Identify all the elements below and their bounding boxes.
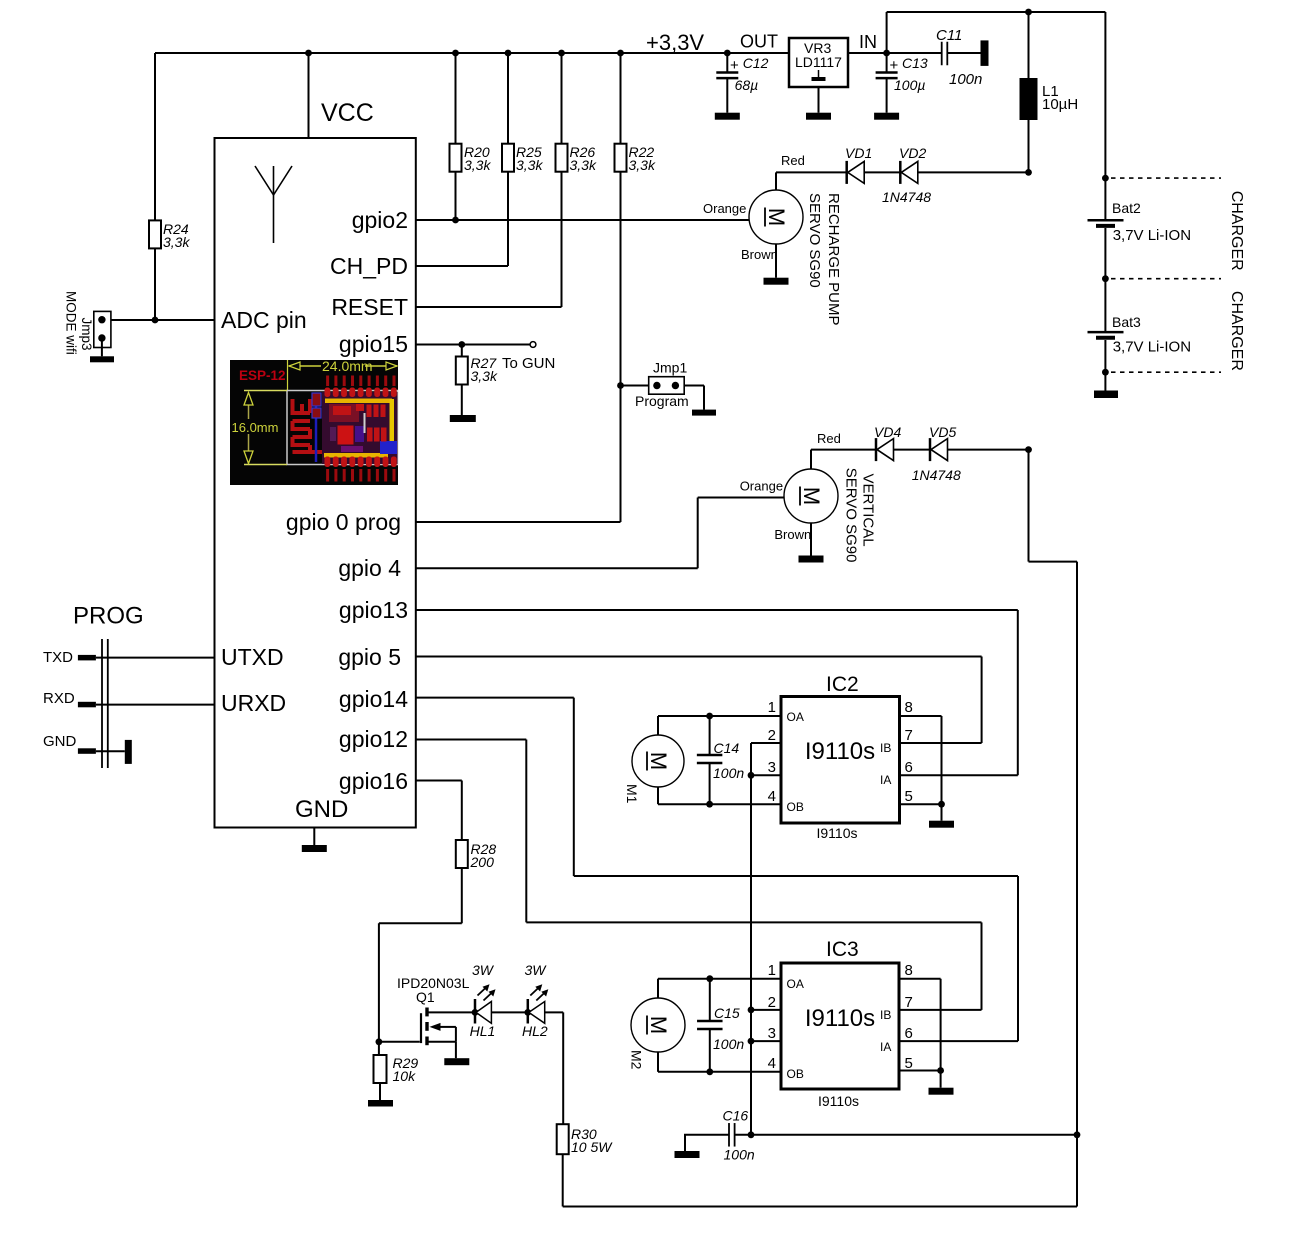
svg-text:3,3k: 3,3k	[629, 157, 656, 173]
resistor R26	[556, 144, 568, 172]
svg-text:IN: IN	[859, 32, 877, 52]
wire R24 column top	[154, 53, 156, 220]
junction rail C12	[724, 50, 731, 57]
junction rail R20	[452, 50, 459, 57]
wire servo1 brown	[775, 244, 777, 278]
IC IC3 I9110s	[781, 938, 899, 1109]
ground C13	[874, 113, 899, 120]
resistor R29	[374, 1055, 387, 1083]
svg-text:Orange: Orange	[703, 201, 746, 216]
svg-text:16.0mm: 16.0mm	[232, 420, 279, 435]
svg-text:LD1117: LD1117	[795, 54, 842, 70]
terminal To GUN open circle	[530, 342, 536, 348]
wire servo1 red	[776, 172, 847, 190]
svg-text:2: 2	[768, 727, 776, 744]
svg-text:Q1: Q1	[416, 989, 435, 1005]
svg-text:68µ: 68µ	[735, 77, 759, 93]
IC3 pin numbers	[768, 962, 913, 1072]
wire gpio12 to IC3 pin7	[416, 740, 982, 1010]
battery Bat2	[1088, 220, 1124, 226]
svg-text:VD2: VD2	[899, 145, 926, 161]
svg-text:HL1: HL1	[470, 1023, 496, 1039]
svg-text:URXD: URXD	[221, 690, 286, 716]
svg-text:gpio15: gpio15	[339, 331, 408, 357]
wire battery plus to C16 node	[1029, 450, 1078, 1135]
terminal bar GND prog	[125, 740, 132, 764]
resistor R20	[450, 144, 462, 172]
junction C16 far right	[1074, 1131, 1081, 1138]
wire gpio13 to IC2 pin6	[416, 610, 1018, 775]
wire gpio2 to servo orange	[416, 219, 749, 221]
capacitor C14	[697, 755, 723, 763]
wire VCC to module	[308, 53, 310, 138]
svg-text:SERVO SG90: SERVO SG90	[842, 468, 859, 563]
svg-text:gpio12: gpio12	[339, 726, 408, 752]
junction rail R22	[617, 50, 624, 57]
wire IC3 pin7 stub	[899, 1009, 982, 1011]
svg-text:M: M	[764, 208, 789, 226]
junction Jmp1 node	[617, 382, 624, 389]
junction gpio2 R20	[452, 217, 459, 224]
wire RESET	[416, 306, 562, 308]
capacitor C13	[876, 73, 898, 79]
svg-text:M1: M1	[624, 784, 640, 804]
wire VD1 to VD2	[864, 171, 900, 173]
wire VD4 to VD5	[894, 449, 931, 451]
wire Bat3 bottom lead	[1104, 340, 1106, 372]
svg-text:VD4: VD4	[874, 424, 901, 440]
svg-text:C12: C12	[743, 55, 769, 71]
wire IC2 pin7 stub	[900, 742, 982, 744]
wire Bat2 top lead	[1104, 178, 1106, 219]
wire gpio 4 to servo2 orange	[416, 498, 784, 569]
svg-text:3W: 3W	[525, 962, 548, 978]
svg-text:C15: C15	[714, 1005, 740, 1021]
wire CH_PD	[416, 265, 508, 267]
svg-text:RESET: RESET	[331, 294, 408, 320]
connector PROG double lines	[102, 639, 108, 768]
svg-text:100n: 100n	[713, 765, 744, 781]
wire C12 to ground	[726, 78, 728, 113]
wire Jmp3 node to Jmp1	[621, 385, 649, 387]
svg-text:6: 6	[905, 759, 913, 776]
wire R20 to gpio2	[455, 172, 457, 220]
svg-text:GND: GND	[43, 733, 77, 750]
wire GND pad to terminal	[96, 750, 125, 752]
wire IC3 pin5 stub	[899, 1070, 941, 1072]
motor M2	[631, 998, 685, 1052]
svg-text:I9110s: I9110s	[805, 738, 875, 765]
wire C12 top	[726, 53, 728, 73]
svg-text:gpio2: gpio2	[352, 207, 408, 233]
junction Bat2 top	[1102, 175, 1109, 182]
junction Q1 gate node	[376, 1038, 383, 1045]
resistor R22	[615, 144, 627, 172]
capacitor C16	[729, 1123, 735, 1147]
wire R25 to CH_PD	[507, 172, 509, 266]
junction IN node	[883, 50, 890, 57]
wire C14 top lead	[709, 716, 711, 755]
junction IC3 pin3	[748, 1038, 755, 1045]
wire gpio 5 to IC2 pin7	[416, 657, 982, 744]
pad RXD	[78, 702, 96, 708]
wire gpio14 to IC3 pin6	[416, 698, 1018, 1042]
junction IC2 pin3	[748, 772, 755, 779]
svg-text:MODE wifi: MODE wifi	[64, 291, 79, 355]
svg-text:gpio13: gpio13	[339, 597, 408, 623]
diode VD4	[876, 438, 894, 461]
wire C16 to ground	[684, 1135, 729, 1151]
wire IC2 pin5 stub	[900, 803, 942, 805]
svg-text:To GUN: To GUN	[502, 355, 555, 372]
ground Jmp1	[692, 410, 716, 416]
ground C16	[675, 1151, 700, 1158]
svg-text:I9110s: I9110s	[805, 1005, 875, 1032]
svg-text:+3,3V: +3,3V	[646, 30, 704, 55]
ground battery	[1094, 391, 1118, 399]
capacitor C11	[942, 42, 948, 66]
svg-text:GND: GND	[295, 796, 348, 823]
junction VD5 node	[1025, 446, 1032, 453]
junction Bat3 bottom	[1102, 369, 1109, 376]
svg-text:OB: OB	[787, 800, 804, 814]
svg-text:VD1: VD1	[845, 145, 872, 161]
dashed charger line 2	[1111, 278, 1221, 280]
wire R26 column	[561, 53, 563, 144]
wire C15 bottom lead	[709, 1029, 711, 1072]
wire IC2 pin6 stub	[900, 774, 1018, 776]
wire IC3 pin4 to M2	[658, 1052, 781, 1072]
svg-text:OA: OA	[787, 977, 804, 991]
wire IC2 pin1 to M1	[658, 716, 781, 735]
svg-text:8: 8	[905, 699, 913, 716]
svg-text:TXD: TXD	[43, 649, 73, 666]
motor M1	[632, 735, 684, 787]
inductor L1	[1020, 78, 1038, 120]
wire C11 to terminal	[947, 52, 981, 54]
diode VD5	[930, 438, 948, 461]
wire R29 top lead	[378, 1042, 380, 1055]
svg-text:gpio 5: gpio 5	[338, 644, 401, 670]
svg-text:100n: 100n	[949, 71, 982, 88]
ground Q1	[444, 1058, 469, 1065]
diode VD2	[900, 161, 918, 184]
svg-text:1N4748: 1N4748	[912, 467, 961, 483]
ground IC2	[929, 821, 954, 828]
wire HL1 to HL2	[491, 1011, 527, 1013]
svg-text:3W: 3W	[472, 962, 495, 978]
wire R25 column	[507, 53, 509, 144]
IC2 pin numbers	[768, 699, 913, 805]
wire IC2 pin4 to M1	[658, 787, 781, 804]
svg-text:Program: Program	[635, 393, 689, 409]
svg-text:8: 8	[905, 962, 913, 979]
LED HL1	[475, 984, 496, 1023]
wire Jmp3 to ground	[101, 338, 103, 356]
wire C13 top	[886, 53, 888, 73]
svg-text:RXD: RXD	[43, 690, 75, 707]
resistor R27	[456, 357, 468, 385]
junction C15 top	[706, 975, 713, 982]
svg-text:gpio14: gpio14	[339, 686, 408, 712]
svg-text:200: 200	[470, 854, 495, 870]
svg-text:RECHARGE PUMP: RECHARGE PUMP	[825, 193, 842, 326]
wire +3,3V rail	[155, 52, 789, 54]
svg-text:3: 3	[768, 1025, 776, 1042]
svg-text:+: +	[730, 57, 739, 74]
wire C14 bottom lead	[709, 763, 711, 804]
svg-text:UTXD: UTXD	[221, 644, 284, 670]
svg-text:3,3k: 3,3k	[163, 234, 190, 250]
junction HL1 anode	[472, 1009, 479, 1016]
ground servo2	[799, 556, 824, 563]
svg-text:+: +	[890, 57, 899, 74]
wire module GND	[313, 828, 315, 846]
svg-text:VERTICAL: VERTICAL	[860, 474, 877, 547]
pad TXD	[78, 655, 96, 661]
wire Jmp1 to ground	[684, 386, 704, 410]
wire VD5 to L1 column	[948, 449, 1029, 451]
ground VR3	[806, 113, 831, 120]
junction HL2 anode	[524, 1009, 531, 1016]
svg-text:1: 1	[768, 699, 776, 716]
svg-text:OUT: OUT	[740, 32, 778, 52]
regulator VR3 LD1117	[789, 38, 848, 87]
svg-text:3,3k: 3,3k	[516, 157, 543, 173]
svg-text:2: 2	[768, 994, 776, 1011]
svg-text:Jmp1: Jmp1	[653, 360, 687, 376]
junction C14 bottom	[706, 801, 713, 808]
ground R27	[450, 415, 476, 422]
wire C13 to ground	[886, 78, 888, 113]
svg-text:M2: M2	[629, 1050, 645, 1070]
svg-text:4: 4	[768, 1055, 776, 1072]
wire IC3 pin5 to ground	[940, 1071, 942, 1088]
junction IC3 pin2	[748, 1007, 755, 1014]
svg-text:3,7V Li-ION: 3,7V Li-ION	[1113, 227, 1191, 244]
wire TXD to UTXD	[96, 657, 215, 659]
ESP-12 photo image	[230, 358, 398, 485]
junction C14 top	[706, 713, 713, 720]
svg-text:Red: Red	[817, 431, 841, 446]
svg-text:4: 4	[768, 788, 776, 805]
antenna	[255, 166, 292, 243]
svg-text:M: M	[646, 752, 671, 770]
svg-text:7: 7	[905, 994, 913, 1011]
wire VR3 IN to C13 node	[848, 52, 941, 54]
svg-text:IB: IB	[880, 741, 891, 755]
jumper Jmp1	[649, 377, 685, 395]
pad GND	[78, 748, 96, 754]
jumper Jmp3	[94, 311, 111, 347]
wire gpio 0 prog	[416, 521, 621, 523]
svg-text:6: 6	[905, 1025, 913, 1042]
capacitor C12	[716, 73, 738, 79]
svg-text:VCC: VCC	[321, 99, 374, 127]
wire IC2 pin2 jog	[751, 743, 781, 775]
junction VD2 node	[1025, 169, 1032, 176]
svg-text:C16: C16	[723, 1108, 749, 1124]
svg-text:IC2: IC2	[826, 673, 859, 696]
wire R20 column	[455, 53, 457, 144]
svg-text:3: 3	[768, 759, 776, 776]
wire L1 top	[1028, 12, 1030, 78]
ground module	[302, 845, 327, 852]
svg-text:IA: IA	[880, 773, 891, 787]
wire C15 top lead	[709, 979, 711, 1021]
svg-text:ADC pin: ADC pin	[221, 307, 307, 333]
resistor R28	[456, 840, 468, 868]
svg-text:100µ: 100µ	[894, 77, 925, 93]
junction C16 right	[748, 1131, 755, 1138]
wire IC3 pin1 to M2	[658, 979, 781, 998]
svg-text:10µH: 10µH	[1042, 96, 1078, 113]
wire R26 to RESET	[561, 172, 563, 307]
wire IC2 pin5 to ground	[941, 804, 943, 821]
wire Bat3 top lead	[1104, 279, 1106, 331]
wire IN to batteries top	[887, 12, 1106, 53]
svg-text:IB: IB	[880, 1008, 891, 1022]
ground servo1	[764, 278, 789, 285]
junction IC3 pin5	[937, 1067, 944, 1074]
servo vertical SG90	[784, 469, 838, 523]
terminal bar right of C11	[981, 40, 989, 66]
wire R30 to bottom rail	[563, 1135, 1077, 1207]
wire Q1 source to ground	[455, 1042, 457, 1058]
svg-text:100n: 100n	[713, 1036, 744, 1052]
wire IC2 pin3 stub	[751, 774, 781, 776]
svg-text:C11: C11	[936, 27, 962, 44]
svg-text:M: M	[646, 1016, 671, 1034]
svg-text:Jmp3: Jmp3	[79, 318, 94, 351]
servo recharge pump SG90	[749, 190, 803, 244]
svg-text:Brown: Brown	[774, 527, 811, 542]
ground R29	[368, 1100, 393, 1107]
wire R22 to gpio0 node	[620, 172, 622, 522]
svg-text:1N4748: 1N4748	[882, 189, 931, 205]
svg-text:CHARGER: CHARGER	[1228, 291, 1245, 371]
svg-text:VD5: VD5	[929, 424, 956, 440]
junction ADC node	[152, 317, 159, 324]
junction Bat2 Bat3	[1102, 275, 1109, 282]
svg-text:C13: C13	[902, 55, 928, 71]
svg-text:OA: OA	[787, 710, 804, 724]
wire R29 to ground	[379, 1083, 381, 1100]
svg-text:C14: C14	[714, 740, 740, 756]
wire gpio16 to R28	[416, 781, 462, 841]
wire Bat2 to Bat3	[1104, 228, 1106, 279]
svg-text:gpio 4: gpio 4	[338, 555, 401, 581]
wire pins23 column to C16	[750, 775, 752, 1135]
wire IC3 pin2 stub	[751, 1009, 781, 1011]
wire gate node to Q1	[379, 1041, 420, 1043]
svg-text:I9110s: I9110s	[818, 1093, 859, 1109]
svg-text:PROG: PROG	[73, 603, 144, 630]
svg-text:5: 5	[905, 1055, 913, 1072]
svg-text:3,3k: 3,3k	[570, 157, 597, 173]
svg-text:I9110s: I9110s	[817, 825, 858, 841]
wire R28 to Q1 gate node	[379, 868, 462, 1042]
wire gpio15 to R27	[461, 345, 463, 357]
svg-text:gpio 0 prog: gpio 0 prog	[286, 509, 401, 535]
wire servo2 brown	[810, 523, 812, 556]
ground IC3	[929, 1088, 954, 1095]
svg-text:10 5W: 10 5W	[571, 1139, 613, 1155]
wire battery column top	[1104, 12, 1106, 178]
svg-text:HL2: HL2	[522, 1023, 548, 1039]
wire HL2 to R30	[545, 1012, 564, 1124]
IC IC2 I9110s	[781, 673, 900, 841]
svg-text:10k: 10k	[393, 1068, 417, 1084]
wire IC3 pin3 stub	[751, 1040, 781, 1042]
svg-text:Bat2: Bat2	[1112, 200, 1141, 216]
wire VD2 to L1 column	[918, 171, 1029, 173]
svg-text:ESP-12: ESP-12	[239, 368, 286, 383]
svg-text:CHARGER: CHARGER	[1228, 191, 1245, 271]
ground Jmp3	[90, 356, 114, 362]
junction C15 bottom	[706, 1068, 713, 1075]
svg-text:1: 1	[768, 962, 776, 979]
svg-text:Brown: Brown	[741, 247, 778, 262]
wire C16 node	[735, 1134, 1077, 1136]
wire ADC pin	[111, 319, 215, 321]
junction rail R25	[505, 50, 512, 57]
ground C12	[715, 113, 740, 120]
dashed charger line 3	[1111, 371, 1221, 373]
wire RXD to URXD	[96, 704, 215, 706]
transistor Q1 IPD20N03L	[421, 1008, 475, 1046]
wire VR3 to ground	[818, 87, 820, 113]
resistor R30	[557, 1124, 569, 1154]
wire R24 to ADC node	[154, 248, 156, 320]
junction gpio15 R27	[458, 341, 465, 348]
svg-text:OB: OB	[787, 1067, 804, 1081]
LED HL2	[528, 984, 549, 1023]
svg-text:5: 5	[905, 788, 913, 805]
junction rail R26	[558, 50, 565, 57]
resistor R25	[502, 144, 514, 172]
svg-text:IC3: IC3	[826, 938, 859, 961]
svg-text:Red: Red	[781, 153, 805, 168]
wire gpio15 to GUN	[416, 344, 531, 346]
svg-text:IA: IA	[880, 1040, 891, 1054]
svg-text:CH_PD: CH_PD	[330, 253, 408, 279]
wire servo2 red	[811, 450, 876, 469]
capacitor C15	[697, 1021, 723, 1029]
wire R27 to ground	[461, 385, 463, 416]
battery Bat3	[1088, 332, 1124, 338]
module ESP-12 box	[215, 138, 416, 828]
svg-text:gpio16: gpio16	[339, 768, 408, 794]
wire IC3 pin8 to pin5	[899, 979, 941, 1071]
svg-text:M: M	[799, 487, 824, 505]
wire IC2 pin8 to pin5	[900, 716, 942, 804]
svg-text:3,3k: 3,3k	[471, 368, 498, 384]
junction L1 top	[1025, 9, 1032, 16]
svg-text:100n: 100n	[724, 1147, 755, 1163]
wire IC3 pin6 stub	[899, 1040, 1018, 1042]
wire L1 bottom	[1028, 120, 1030, 172]
wire R22 column	[620, 53, 622, 144]
svg-text:7: 7	[905, 727, 913, 744]
svg-text:3,7V Li-ION: 3,7V Li-ION	[1113, 339, 1191, 356]
svg-text:3,3k: 3,3k	[464, 157, 491, 173]
junction rail VCC	[305, 50, 312, 57]
wire battery to ground	[1104, 372, 1106, 390]
resistor R24	[149, 220, 161, 248]
dashed charger line 1	[1111, 177, 1221, 179]
diode VD1	[847, 161, 865, 184]
